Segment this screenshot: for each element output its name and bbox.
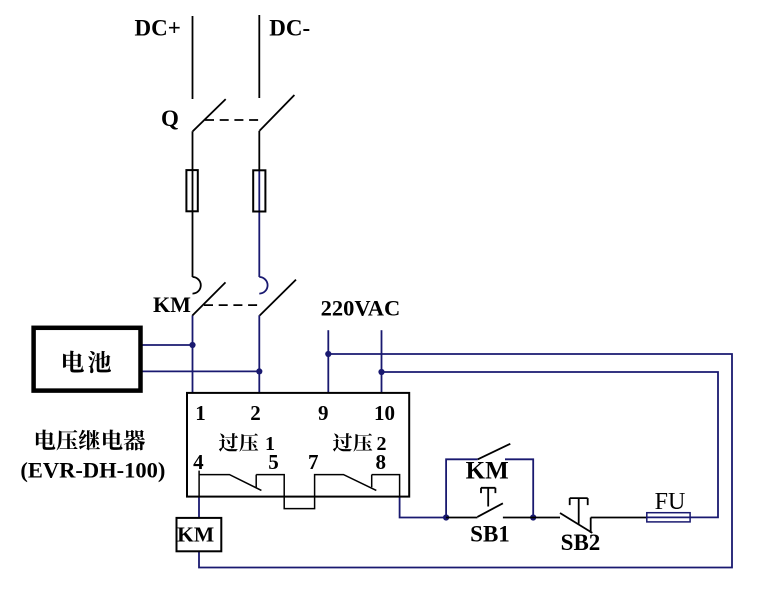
- svg-text:10: 10: [374, 401, 395, 425]
- svg-text:(EVR-DH-100): (EVR-DH-100): [20, 458, 165, 483]
- svg-text:DC-: DC-: [269, 16, 310, 41]
- svg-text:2: 2: [377, 433, 387, 455]
- svg-text:1: 1: [265, 433, 275, 455]
- svg-text:DC+: DC+: [135, 16, 181, 41]
- svg-text:9: 9: [318, 401, 329, 425]
- svg-text:Q: Q: [161, 106, 179, 131]
- svg-text:KM: KM: [177, 523, 214, 547]
- svg-text:220VAC: 220VAC: [321, 296, 401, 321]
- svg-text:4: 4: [193, 450, 204, 474]
- svg-text:FU: FU: [655, 489, 686, 515]
- svg-text:2: 2: [250, 401, 261, 425]
- svg-text:KM: KM: [153, 292, 191, 317]
- svg-text:SB2: SB2: [561, 530, 601, 555]
- svg-text:1: 1: [195, 401, 206, 425]
- svg-text:KM: KM: [466, 457, 509, 484]
- svg-text:SB1: SB1: [470, 522, 510, 547]
- svg-text:7: 7: [308, 450, 319, 474]
